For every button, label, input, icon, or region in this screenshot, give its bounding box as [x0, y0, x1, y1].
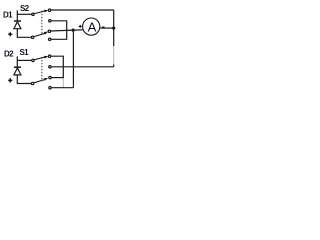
diode D2 triangle [14, 68, 21, 75]
ammeter U1 circle [83, 18, 100, 35]
wire: D1 anode down and right to pole2 [17, 29, 31, 38]
switch S1 pole2 common circle [31, 82, 33, 84]
junction dot ammeter out [112, 27, 115, 30]
diode D2 cathode bar [14, 66, 21, 68]
wire: contact A2 line right and down [51, 56, 64, 78]
contact A circle [48, 9, 50, 11]
switch S1 pole1 arm [34, 57, 45, 60]
svg-text:D1: D1 [3, 10, 13, 19]
contact B2 circle [49, 66, 51, 68]
contact A2 circle [48, 55, 50, 57]
switch S2 pole1 arm [34, 11, 45, 14]
switch S1 pole2 arm arrowhead [44, 78, 49, 81]
ammeter minus label [102, 26, 105, 28]
wire: right edge vertical [113, 10, 115, 46]
ammeter plus label [79, 25, 82, 28]
wire: branch to S1 pole1 [17, 59, 32, 61]
switch S1 pole2 arm [34, 80, 45, 83]
wire: ammeter to right edge [100, 27, 114, 29]
wire: contact A line to right edge [51, 9, 114, 11]
svg-text:S1: S1 [20, 48, 30, 57]
contact D2c circle [49, 87, 51, 89]
svg-text:S2: S2 [20, 4, 30, 13]
wire: branch to S2 pole1 [17, 13, 32, 15]
svg-text:A: A [88, 19, 97, 34]
contact B circle [49, 20, 51, 22]
wire: contact B2 line to right edge [51, 66, 114, 68]
switch S1 pole1 arm arrowhead [44, 56, 49, 59]
switch S1 pole1 common circle [32, 59, 34, 61]
wire: D1 cathode column stub [16, 10, 18, 21]
dashed linkage S1 [41, 57, 43, 80]
wire: contact D2 line to crossover [51, 87, 73, 89]
dashed linkage S2 [41, 11, 43, 34]
switch S2 pole1 common circle [32, 13, 34, 15]
wire: line back to contact C2 [51, 77, 63, 79]
wire: contact C to ammeter [51, 30, 84, 31]
wire: D2 anode down and right to pole2 [17, 75, 31, 84]
diode D1 triangle [14, 22, 21, 29]
wire: faint continuation down to D2 line [62, 78, 64, 88]
plus sign of D1 [8, 32, 12, 36]
wire: D2 cathode column stub [16, 56, 18, 67]
diode D1 cathode bar [14, 20, 21, 22]
switch S2 pole2 arm [34, 33, 45, 36]
background [0, 0, 120, 92]
junction dot at crossover top [72, 29, 75, 32]
plus sign of D2 [8, 78, 12, 82]
switch S2 pole2 common circle [31, 36, 33, 38]
switch S2 pole2 arm arrowhead [44, 32, 49, 35]
contact D circle [49, 38, 51, 40]
svg-text:D2: D2 [4, 50, 14, 59]
contact C2 circle [49, 76, 51, 78]
wire: crossover vertical to bottom [72, 30, 74, 88]
wire: contact B line, down, back to contact D [51, 21, 67, 40]
contact C circle [48, 30, 50, 32]
switch S2 pole1 arm arrowhead [44, 10, 49, 13]
